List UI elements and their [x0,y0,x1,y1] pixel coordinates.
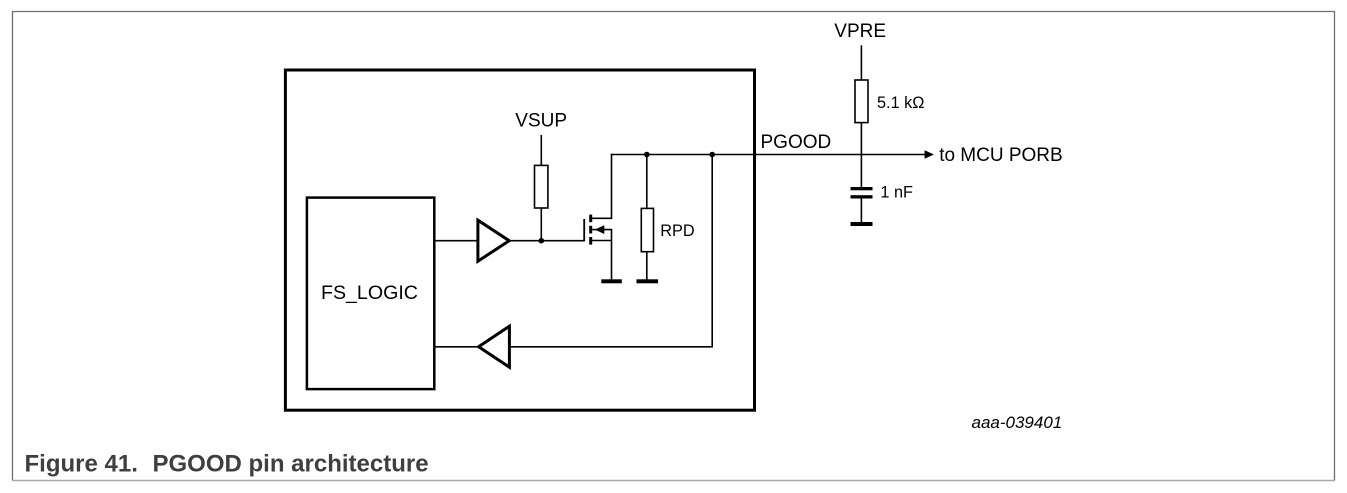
capacitor C1 top plate [851,187,873,190]
FS_LOGIC block [307,198,434,390]
wire buffer U2 output to FS_LOGIC [436,346,478,348]
svg-text:to MCU PORB: to MCU PORB [939,145,1063,166]
svg-text:VPRE: VPRE [834,21,886,42]
ground (MOSFET source) [601,279,622,283]
resistor VSUP pull-up body [535,165,548,208]
transistor Q1 gate bar [583,219,585,241]
ground (capacitor) [851,222,873,226]
junction dot gate/VSUP node [539,238,545,244]
wire RPD bottom [646,252,648,280]
transistor Q1 body lead with arrow [592,230,611,241]
transistor Q1 source lead [592,241,612,280]
wire RPD top [646,155,648,209]
wire VPRE to resistor [860,45,862,80]
junction dot feedback node [709,152,715,158]
wire resistor to PGOOD line and capacitor [860,123,862,187]
wire VSUP to resistor [540,135,542,165]
svg-text:5.1 kΩ: 5.1 kΩ [877,94,924,112]
wire buffer U1 output to MOSFET gate [511,240,585,242]
wire FS_LOGIC to buffer U1 [436,240,477,242]
svg-text:aaa-039401: aaa-039401 [972,413,1063,432]
svg-text:FS_LOGIC: FS_LOGIC [321,282,418,304]
ground (RPD) [637,279,659,283]
transistor Q1 drain lead [592,154,612,219]
svg-text:1 nF: 1 nF [880,184,913,202]
svg-text:VSUP: VSUP [515,111,567,132]
svg-text:PGOOD pin architecture: PGOOD pin architecture [153,451,429,478]
arrowhead to MCU PORB [925,150,934,158]
svg-text:PGOOD: PGOOD [761,132,832,153]
wire capacitor to ground [860,199,862,223]
IC boundary box [285,70,754,410]
transistor Q1 channel segments [589,215,592,223]
capacitor C1 bottom plate [851,195,873,198]
buffer U1 (drive buffer, points right) [478,220,509,261]
svg-text:Figure 41.: Figure 41. [25,451,138,478]
wire resistor to gate node [540,208,542,241]
figure bottom divider line [12,480,1335,482]
node PGOOD internal rail [611,154,926,156]
junction dot RPD node [644,152,650,158]
wire feedback horizontal to buffer U2 [511,346,713,348]
svg-text:RPD: RPD [660,222,694,240]
resistor RPD body [641,208,653,251]
resistor 5.1 kOhm body [855,80,868,123]
buffer U2 (sense buffer, points left) [479,326,510,367]
transistor Q1 body arrowhead [595,225,605,234]
wire feedback vertical [711,155,713,347]
